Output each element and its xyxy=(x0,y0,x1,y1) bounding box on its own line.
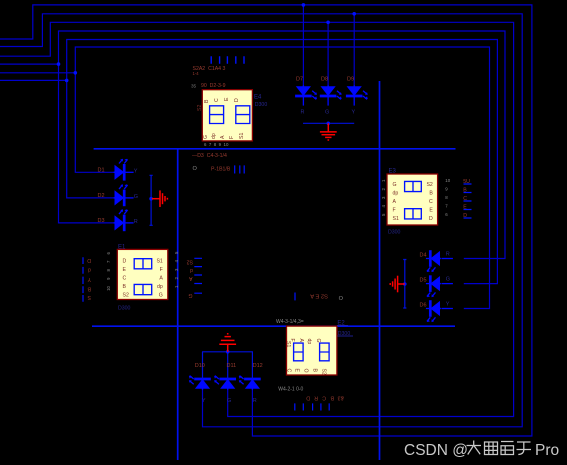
svg-text:S1: S1 xyxy=(393,216,399,222)
wire long vertical net at x=379.5 xyxy=(379,81,381,460)
wire cathode rail of D1-D3 xyxy=(150,175,153,225)
svg-text:S1: S1 xyxy=(239,133,245,139)
wire long vertical net at x=177.7 xyxy=(177,149,179,460)
middle dangling wire stub xyxy=(294,293,296,301)
wire D6 cathode stub xyxy=(426,308,430,310)
display E3 digit 2 xyxy=(405,209,422,219)
junction dot D9 tap xyxy=(352,12,356,16)
LED D3 xyxy=(114,209,128,231)
junction dot on D1-D3 rail xyxy=(149,197,153,201)
svg-text:D5: D5 xyxy=(420,277,427,283)
svg-text:dp: dp xyxy=(306,339,312,345)
display E2 digit 2 xyxy=(320,343,330,361)
svg-text:1-4: 1-4 xyxy=(193,71,200,76)
wire D4 cathode stub xyxy=(426,258,430,260)
svg-text:G: G xyxy=(393,182,397,188)
svg-text:D6: D6 xyxy=(420,302,427,308)
wire D8 cathode stub xyxy=(327,96,329,106)
wire bus C: left entry, top rail, right side down, bottom to LED D11 xyxy=(0,22,514,416)
wire bus E main: D1 anode up over top to right side LED D6 xyxy=(75,47,489,309)
watermark CSDN xyxy=(404,441,559,460)
LED D9 xyxy=(346,85,368,99)
LED D4 xyxy=(427,250,441,272)
wire D12 top xyxy=(251,352,253,379)
svg-text:R: R xyxy=(134,219,138,225)
svg-text:F: F xyxy=(393,208,396,214)
display E4 body xyxy=(202,90,252,141)
svg-text:W4-2-1 0-0: W4-2-1 0-0 xyxy=(278,387,303,393)
svg-text:S2: S2 xyxy=(197,105,203,111)
wire stubs left of E1 xyxy=(82,257,84,302)
svg-text:G: G xyxy=(315,339,321,343)
svg-text:D300: D300 xyxy=(388,230,401,236)
wire D3 cathode stub xyxy=(124,222,133,224)
svg-text:E: E xyxy=(224,97,230,101)
svg-text:R: R xyxy=(314,395,318,401)
svg-text:&3: &3 xyxy=(338,395,344,401)
svg-text:D: D xyxy=(429,216,433,222)
LED D6 xyxy=(427,300,441,322)
wire D11 top xyxy=(227,352,229,379)
display E2 digit 1 xyxy=(294,343,304,361)
svg-text:C: C xyxy=(429,199,433,205)
svg-text:CSDN @: CSDN @ xyxy=(404,442,468,459)
wire bus F main: D2 anode up over top to right side LED D5 xyxy=(67,40,498,284)
LED D2 xyxy=(114,184,128,206)
wire D10 top xyxy=(202,352,204,379)
svg-text:D4: D4 xyxy=(420,252,427,258)
wire bus E: left entry stub to junction xyxy=(0,72,75,74)
svg-text:90 D2-3-9: 90 D2-3-9 xyxy=(201,83,226,89)
svg-text:S1: S1 xyxy=(156,258,162,264)
svg-text:E: E xyxy=(294,369,300,373)
display E2 body xyxy=(287,326,337,375)
svg-text:G: G xyxy=(134,194,138,200)
wire D6 anode stub xyxy=(442,308,453,310)
wire D2 cathode stub xyxy=(124,197,133,199)
svg-text:B: B xyxy=(87,286,91,292)
wire D7 anode drop xyxy=(302,5,304,88)
svg-text:R: R xyxy=(253,398,257,404)
wire stubs above E4 xyxy=(211,56,244,63)
svg-text:S: S xyxy=(87,294,91,300)
display E4 digit 2 xyxy=(236,106,250,124)
wire long horizontal net at y=326.2 xyxy=(92,325,455,327)
wire long horizontal net at y=148.8 xyxy=(94,148,456,150)
junction dot on D10-D12 rail xyxy=(226,350,230,354)
svg-text:10: 10 xyxy=(445,178,450,183)
junction dot on D4-D6 rail xyxy=(403,282,407,286)
svg-text:D: D xyxy=(87,257,91,263)
svg-text:D300: D300 xyxy=(255,102,268,108)
LED D10 xyxy=(189,376,211,390)
svg-text:Y: Y xyxy=(446,302,450,308)
svg-text:R: R xyxy=(446,252,450,258)
svg-text:A: A xyxy=(393,199,397,205)
svg-text:dp: dp xyxy=(211,133,217,139)
display E1 digit 2 xyxy=(134,284,152,294)
wire stubs mid row xyxy=(235,165,245,173)
svg-text:S2: S2 xyxy=(187,259,193,265)
svg-text:D: D xyxy=(123,258,127,264)
wire D4 anode stub xyxy=(442,258,453,260)
svg-text:D300: D300 xyxy=(118,306,131,312)
svg-text:O: O xyxy=(303,369,309,373)
wire stubs below E2 xyxy=(295,403,329,410)
LED D8 xyxy=(320,85,342,99)
LED D11 xyxy=(214,376,236,390)
svg-text:P-1B1/B: P-1B1/B xyxy=(211,167,231,173)
display E4 digit 1 xyxy=(210,106,224,124)
svg-text:S2: S2 xyxy=(321,369,327,375)
svg-text:D1: D1 xyxy=(98,168,105,174)
svg-text:E: E xyxy=(123,267,127,273)
junction dot bus F xyxy=(65,79,69,83)
svg-text:A: A xyxy=(298,339,304,343)
power ground symbol right-facing for D1-D3 xyxy=(152,190,168,207)
svg-text:G: G xyxy=(188,292,192,298)
wire stubs right of E3 xyxy=(464,184,472,218)
svg-text:d: d xyxy=(88,267,91,273)
svg-text:B: B xyxy=(123,284,127,290)
svg-text:G: G xyxy=(203,135,209,139)
wire D7 cathode stub xyxy=(302,96,304,106)
svg-text:C: C xyxy=(286,369,292,373)
svg-text:B: B xyxy=(330,395,334,401)
svg-text:S1: S1 xyxy=(285,341,291,347)
svg-text:B: B xyxy=(429,191,433,197)
svg-text:A: A xyxy=(220,135,226,139)
svg-text:d: d xyxy=(190,267,193,273)
earth ground symbol for D7-D9 xyxy=(320,123,337,140)
svg-text:Pro: Pro xyxy=(535,442,559,459)
svg-text:C: C xyxy=(123,275,127,281)
wire stubs right of E1 xyxy=(194,258,202,293)
svg-text:F: F xyxy=(160,267,163,273)
wire D5 anode stub xyxy=(442,283,453,285)
svg-text:dp: dp xyxy=(393,191,399,197)
svg-text:Y: Y xyxy=(134,168,138,174)
junction dot D8 tap xyxy=(326,21,330,25)
junction dot D7 tap xyxy=(302,3,306,7)
svg-text:S2: S2 xyxy=(426,182,432,188)
svg-text:G: G xyxy=(227,398,231,404)
svg-text:G: G xyxy=(446,277,450,283)
svg-text:F: F xyxy=(229,136,235,139)
svg-text:6 7 8 9 10: 6 7 8 9 10 xyxy=(204,142,229,147)
svg-text:R: R xyxy=(301,109,305,115)
wire D9 anode drop xyxy=(353,14,355,88)
svg-text:G: G xyxy=(325,109,329,115)
svg-text:D11: D11 xyxy=(227,363,237,369)
svg-text:E1: E1 xyxy=(118,244,126,250)
svg-text:D2: D2 xyxy=(98,193,105,199)
power ground symbol left-facing for D4-D6 xyxy=(390,276,405,293)
svg-text:D8: D8 xyxy=(321,77,328,83)
svg-text:Y: Y xyxy=(87,276,91,282)
svg-text:D12: D12 xyxy=(253,363,263,369)
wire D8 anode drop xyxy=(327,22,329,87)
svg-text:D: D xyxy=(234,98,240,102)
svg-text:D10: D10 xyxy=(195,363,205,369)
junction dot on D7-D9 rail xyxy=(327,122,331,126)
LED D12 xyxy=(239,376,261,390)
LED D1 xyxy=(114,159,128,181)
wire bus D main: D3 anode up over top to right side LED D4 xyxy=(59,31,506,259)
display E1 digit 1 xyxy=(134,259,152,269)
wire cathode rail of D4-D6 xyxy=(403,260,406,309)
svg-text:35: 35 xyxy=(191,84,197,89)
svg-text:10: 10 xyxy=(106,285,111,290)
junction dot bus E xyxy=(74,71,78,75)
svg-text:O: O xyxy=(339,296,344,302)
wire D9 cathode stub xyxy=(353,96,355,106)
wire D1 cathode stub xyxy=(124,171,133,173)
display E1 body xyxy=(117,249,168,299)
svg-text:S2 E A: S2 E A xyxy=(310,293,328,299)
svg-text:W4-3-1/4,3=: W4-3-1/4,3= xyxy=(276,319,304,325)
svg-text:A: A xyxy=(189,275,193,281)
display E3 digit 1 xyxy=(405,181,422,191)
svg-text:D3: D3 xyxy=(98,218,105,224)
LED D7 xyxy=(295,85,317,99)
junction dot bus D xyxy=(57,62,61,66)
svg-text:E: E xyxy=(429,208,433,214)
LED D5 xyxy=(427,275,441,297)
svg-text:G: G xyxy=(159,292,163,298)
svg-text:B: B xyxy=(312,369,318,373)
svg-text:Y: Y xyxy=(202,398,206,404)
svg-text:C: C xyxy=(214,98,220,102)
wire anode rail of D10-D12 xyxy=(202,351,253,353)
svg-text:E4: E4 xyxy=(254,95,262,101)
svg-text:B: B xyxy=(204,99,210,103)
svg-text:S2: S2 xyxy=(123,292,129,298)
svg-text:C: C xyxy=(322,395,326,401)
svg-text:—D3 C4-3-1/4: —D3 C4-3-1/4 xyxy=(192,153,227,159)
svg-text:O: O xyxy=(193,166,198,172)
svg-text:D9: D9 xyxy=(347,77,354,83)
svg-text:E3: E3 xyxy=(389,168,397,174)
wire D5 cathode stub xyxy=(426,283,430,285)
inverted earth ground symbol for D10-D12 xyxy=(219,334,236,352)
wire bus F: left entry stub to junction xyxy=(0,79,67,81)
svg-text:A: A xyxy=(159,275,163,281)
wire bus D: left entry stub to junction xyxy=(0,63,59,65)
svg-text:dp: dp xyxy=(157,284,163,290)
svg-text:D: D xyxy=(306,395,310,401)
svg-text:Y: Y xyxy=(352,109,356,115)
display E3 body xyxy=(387,174,438,225)
wire cathode rail of D7-D9 xyxy=(303,122,354,124)
svg-text:D7: D7 xyxy=(296,77,303,83)
